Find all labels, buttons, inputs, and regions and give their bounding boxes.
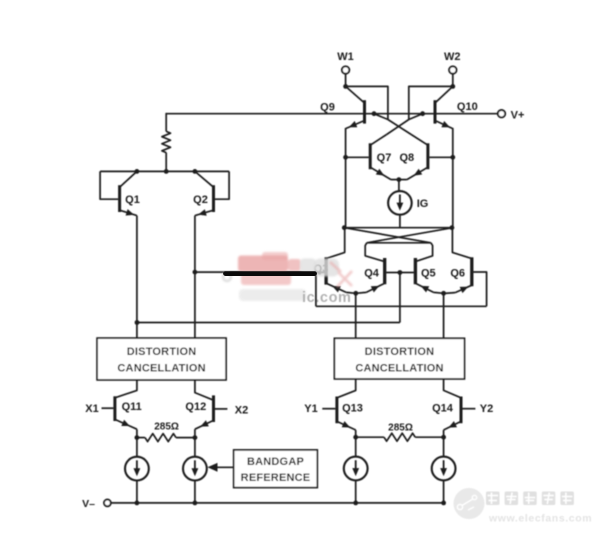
- wire IG to mid rail: [399, 215, 401, 228]
- terminal W1: [342, 66, 349, 73]
- node Q14 emitter: [441, 435, 446, 440]
- svg-text:X2: X2: [235, 405, 248, 417]
- transistor Q12: [212, 395, 215, 422]
- current source IG: [388, 191, 412, 215]
- emitter of Q10: [435, 121, 453, 129]
- svg-text:V+: V+: [511, 109, 525, 121]
- svg-text:285Ω: 285Ω: [388, 422, 413, 433]
- wire cross diagonal right: [367, 228, 453, 243]
- wire W2 staple to cross-couple: [409, 86, 453, 119]
- wire V+ rail corner to resistor: [165, 113, 167, 131]
- svg-text:Q1: Q1: [125, 194, 140, 206]
- svg-text:W1: W1: [337, 51, 354, 63]
- svg-text:Q11: Q11: [122, 401, 142, 413]
- base wire Q4-Q5: [386, 272, 414, 274]
- svg-text:Q10: Q10: [457, 101, 478, 113]
- wire Q2 emitter rail: [194, 216, 196, 339]
- wire hat left to Q4 collector: [365, 243, 385, 262]
- thick black bar: [226, 271, 315, 276]
- svg-text:IG: IG: [417, 198, 429, 210]
- transistor Q6: [452, 228, 471, 259]
- svg-text:Q8: Q8: [399, 152, 414, 164]
- watermark red cross over Q3 emitter: [330, 262, 352, 287]
- emitter of Q2: [195, 210, 214, 215]
- node junction right on V+ rail: [420, 111, 425, 116]
- terminal V-: [104, 500, 111, 507]
- current source I4: [443, 437, 445, 456]
- node Q7/Q8 emitters: [397, 177, 402, 182]
- svg-text:Q6: Q6: [450, 268, 465, 280]
- watermark red text center: [238, 252, 301, 285]
- wire cross diagonal W2 to Q7 collector: [387, 120, 409, 135]
- emitter of Q7: [370, 167, 391, 179]
- emitter of Q12: [195, 420, 214, 429]
- wire right box top right: [443, 293, 445, 338]
- resistor R1: [162, 131, 171, 152]
- transistor Q14: [460, 397, 463, 424]
- emitter of Q5: [415, 283, 433, 292]
- wire left rail of cross-quad: [345, 128, 347, 228]
- wire mid rail: [344, 227, 453, 229]
- svg-text:Y1: Y1: [304, 403, 317, 415]
- wire W1 to node: [345, 74, 347, 87]
- svg-text:Q7: Q7: [377, 152, 392, 164]
- wire right box top left: [355, 293, 357, 338]
- node Q3/Q4 emitters: [353, 291, 358, 296]
- wire drop from Q3 base line: [315, 273, 317, 307]
- svg-text:www.elecfans.com: www.elecfans.com: [488, 513, 592, 525]
- emitter of Q11: [115, 419, 137, 429]
- terminal V+: [498, 110, 505, 117]
- svg-text:X1: X1: [85, 403, 98, 415]
- transistor Q11: [113, 396, 116, 421]
- transistor Q13: [335, 397, 338, 424]
- current source I3: [355, 437, 357, 456]
- svg-text:CANCELLATION: CANCELLATION: [117, 363, 205, 375]
- emitter of Q1: [120, 210, 137, 215]
- node Q5/Q6 emitters: [441, 291, 446, 296]
- wire to IG: [398, 180, 400, 192]
- svg-text:Q4: Q4: [364, 268, 380, 280]
- wire Q1 emitter rail: [136, 216, 138, 339]
- wire cross diagonal W1 to Q8 collector: [388, 120, 411, 135]
- wire hat top: [367, 242, 431, 244]
- wire box to Q12 collector: [195, 380, 214, 400]
- wire Q1/Q2 collector node line: [100, 170, 229, 172]
- emitter of Q4: [366, 283, 385, 292]
- svg-text:W2: W2: [444, 51, 461, 63]
- block distortion cancellation right: [334, 338, 464, 379]
- current source I1: [136, 438, 138, 457]
- wire resistor to node line: [165, 153, 167, 172]
- transistor Q4: [383, 258, 386, 284]
- wire W2 to node: [452, 74, 454, 87]
- arrow bandgap to current source: [217, 466, 234, 468]
- watermark elecfans logo: [454, 488, 485, 519]
- block bandgap reference: [234, 450, 318, 488]
- wire from Q2 emitter to Q3 base: [195, 271, 325, 273]
- resistor 285 ohm left: [137, 437, 145, 439]
- base loop of Q6: [473, 272, 486, 306]
- emitter of Q6: [455, 285, 472, 292]
- emitter of Q8: [407, 167, 428, 179]
- transistor Q5: [414, 258, 417, 284]
- wire box to Q14 collector: [444, 379, 461, 398]
- svg-text:V–: V–: [82, 498, 95, 510]
- wire box to Q11 collector: [115, 380, 137, 398]
- svg-text:Q12: Q12: [185, 401, 206, 413]
- emitter of Q13: [337, 421, 356, 430]
- svg-text:Q13: Q13: [342, 403, 363, 415]
- transistor Q9: [363, 100, 366, 123]
- node Q11 emitter: [135, 435, 140, 440]
- node junction left on V+ rail: [372, 111, 377, 116]
- current source I2: [194, 438, 196, 457]
- emitter of Q14: [444, 421, 461, 430]
- transistor Q10: [434, 100, 437, 123]
- svg-text:Q14: Q14: [432, 403, 454, 415]
- wire right rail of cross-quad: [452, 128, 454, 228]
- wire inner-base drop: [399, 273, 401, 323]
- terminal W2: [449, 66, 456, 73]
- svg-text:Y2: Y2: [480, 403, 493, 415]
- svg-text:BANDGAP: BANDGAP: [247, 456, 304, 468]
- transistor Q7: [346, 156, 369, 158]
- svg-text:Q9: Q9: [320, 102, 335, 114]
- svg-text:Q5: Q5: [421, 268, 436, 280]
- svg-text:DISTORTION: DISTORTION: [127, 346, 197, 358]
- wire inner-base bus to Q1 emitter: [137, 322, 400, 324]
- transistor Q2: [212, 185, 215, 212]
- svg-text:Q2: Q2: [193, 194, 208, 206]
- transistor Q2 diode loop: [215, 171, 229, 199]
- node Q12 emitter: [193, 435, 198, 440]
- node Q13 emitter: [353, 435, 358, 440]
- wire V- rail: [111, 502, 444, 504]
- watermark gray blob over Q3: [223, 259, 339, 282]
- emitter of Q3: [326, 283, 346, 292]
- transistor Q1 diode loop: [100, 171, 118, 199]
- wire outer-base bus: [316, 305, 487, 307]
- resistor 285 ohm right: [356, 436, 384, 438]
- svg-text:285Ω: 285Ω: [154, 421, 179, 432]
- wire V+ rail: [166, 113, 497, 115]
- svg-text:REFERENCE: REFERENCE: [241, 472, 311, 484]
- wire hat right to Q5 collector: [415, 243, 432, 262]
- wire cross diagonal left: [344, 228, 431, 243]
- wire box to Q13 collector: [337, 379, 356, 398]
- transistor Q1: [118, 185, 121, 212]
- wire W1 staple to cross-couple: [346, 86, 388, 119]
- transistor Q8: [429, 156, 452, 158]
- svg-text:DISTORTION: DISTORTION: [365, 346, 435, 358]
- svg-text:CANCELLATION: CANCELLATION: [355, 363, 443, 375]
- block distortion cancellation left: [97, 338, 226, 380]
- svg-text:ic.com: ic.com: [302, 290, 352, 306]
- watermark gray band behind: [239, 289, 306, 301]
- transistor Q3: [326, 228, 345, 259]
- emitter of Q9: [346, 121, 365, 129]
- watermark elecfans text (faux CJK glyph blocks): [486, 492, 574, 506]
